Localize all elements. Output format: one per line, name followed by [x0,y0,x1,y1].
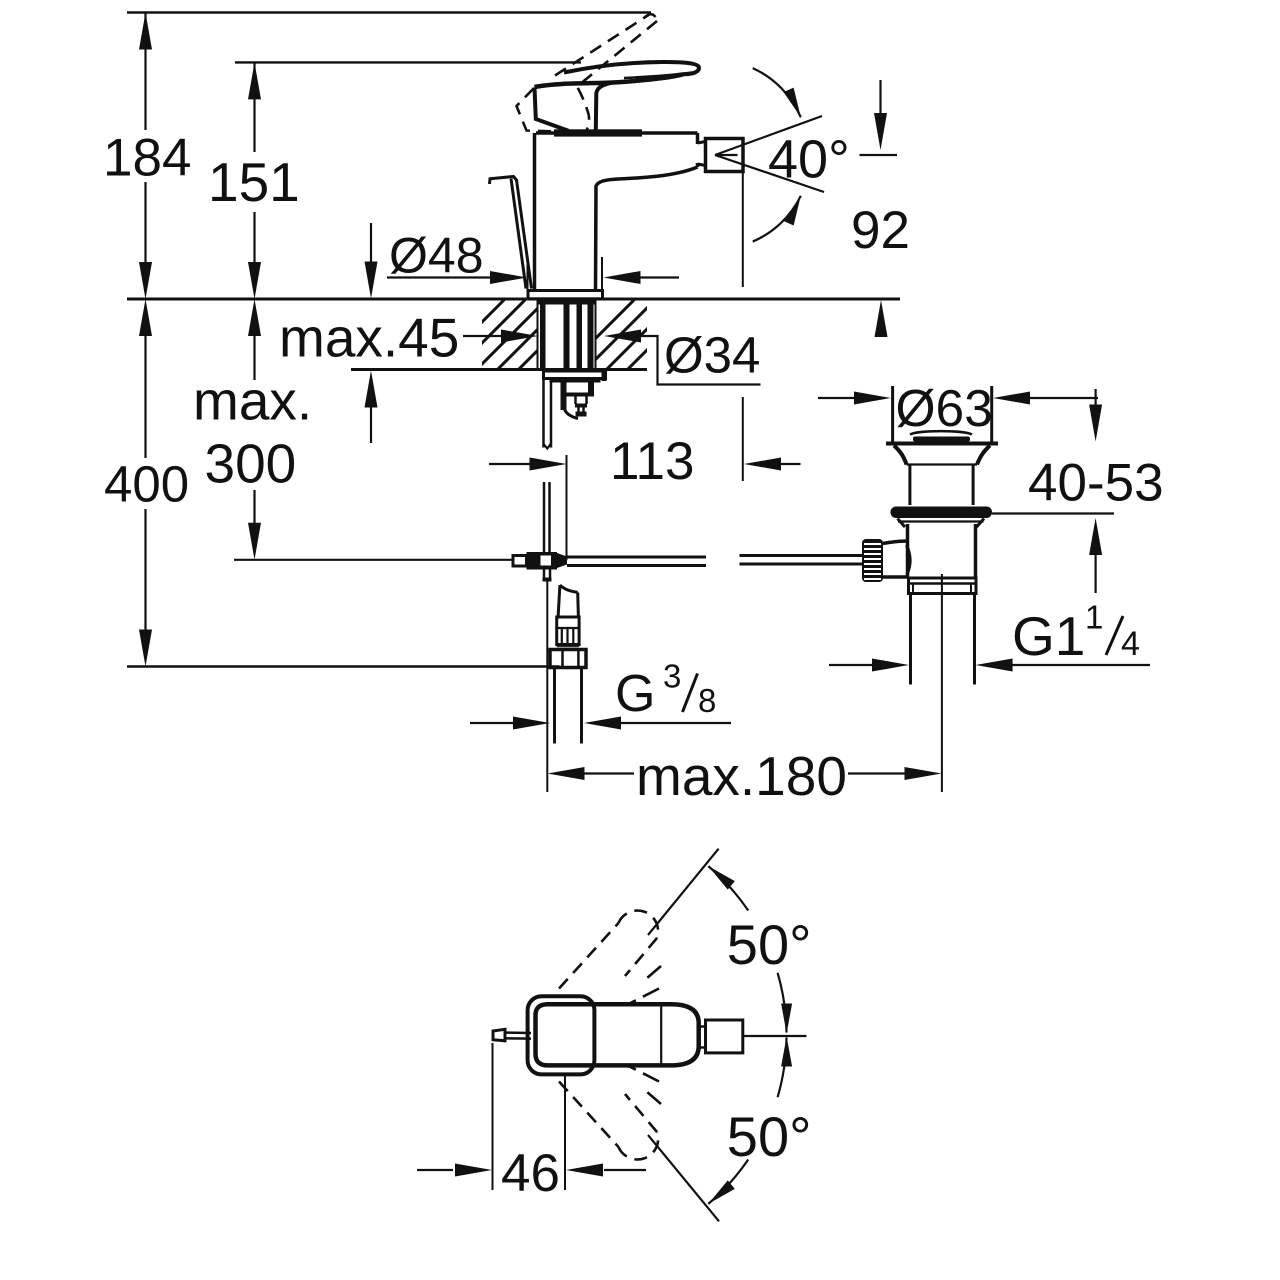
top view: body-spout joint line [660,1006,662,1065]
lever neck [596,83,613,130]
svg-text:113: 113 [610,432,695,491]
fixing washer plate [544,371,606,379]
svg-text:3: 3 [663,658,681,695]
top view: faucet base plate [528,996,595,1074]
dimension Ø48 line and arrows [387,276,491,278]
svg-text:46: 46 [501,1144,560,1203]
upper 50° arc with arrowheads [708,866,748,910]
reference line: lever tip height [235,61,581,63]
svg-text:50°: 50° [727,913,812,976]
push cap [910,431,972,434]
top view: spout centreline [743,1035,807,1037]
top view: faucet body and spout [536,1004,699,1065]
pop-up waste head cylinder (Ø63) [891,386,894,443]
svg-text:8: 8 [698,682,716,719]
svg-text:40-53: 40-53 [1028,454,1164,513]
113 extension line at faucet centre [566,455,568,560]
knurled adjusting knob [862,539,883,582]
head bottom rim [886,442,998,446]
faucet body outline [536,131,698,135]
faucet base plate [528,291,603,299]
tailpipe G1 1/4 [909,594,912,685]
dimension 400 vertical line [144,334,146,458]
top view: spout swivel -50° (dashed) [559,1082,618,1147]
tailpipe connector rings [909,578,977,594]
spout underside curve [596,167,698,291]
dimension G3/8 arrows [470,722,514,724]
lower 50° arc with arrowheads [778,1038,787,1098]
svg-text:Ø63: Ø63 [896,379,993,437]
svg-text:Ø34: Ø34 [664,327,760,384]
svg-text:40°: 40° [768,130,850,190]
fixing nut band [550,379,601,383]
dimension Ø63 line and arrows [818,397,855,399]
countertop bottom line [351,368,647,371]
svg-text:92: 92 [851,201,910,260]
pop-up rod lower segment [543,482,546,553]
rod clamp joint [513,556,527,567]
top view: aerator [706,1020,743,1053]
dimension G1 1/4 arrows [829,664,874,666]
40° spray cone rays from aerator [715,116,822,155]
spout neck to aerator [698,142,706,144]
svg-text:Ø48: Ø48 [389,228,484,284]
countertop top surface line [127,298,900,301]
extension line at spout tip [742,172,744,288]
dimension Ø34 leader with arrow [604,330,641,343]
svg-text:184: 184 [103,129,191,188]
dimension 151 vertical line [253,62,255,152]
dimension max.300 vertical line [253,334,255,380]
flexible hose upper tube [558,585,560,617]
countertop hatching right of faucet shank [560,299,761,374]
40° upper arc with arrowhead [753,68,801,117]
92 tick at aerator centreline [860,154,898,156]
svg-text:max.180: max.180 [636,745,847,807]
hose braid block [557,617,579,645]
temperature limiter lever on faucet left [490,177,532,289]
lever pivot block [535,88,569,131]
svg-text:400: 400 [104,456,189,513]
pop-up rod upper segment [542,379,545,448]
side port arm [883,541,908,544]
40° lower arc with arrowhead [753,196,801,242]
svg-text:G: G [615,665,655,723]
aerator / mousseur [706,139,744,172]
supply pipe tail [553,668,556,744]
hose nut G3/8 [550,650,586,668]
hose bend arc [564,406,579,419]
reference line: bottom of supply hose (400 mark) [127,665,560,668]
lever beak mouth line [624,73,692,79]
svg-text:max.: max. [193,370,312,432]
max.180 extension lines [546,582,548,793]
threaded shank and hose tails in hole [539,300,596,305]
upper cylinder body [908,465,911,506]
valve body cylinder [906,524,910,578]
hose collar [557,645,579,647]
dimension 184 vertical line [144,13,146,131]
40-53 reference line at O-ring [992,512,1114,514]
svg-text:4: 4 [1121,625,1140,663]
dimension 46 extension lines [492,1043,494,1190]
dimension 92 upper arrow [879,80,881,115]
head taper flare [894,446,907,465]
shank lower step right bar [588,383,594,397]
top view: spout swivel +50° (dashed) [559,923,618,988]
top view: temperature lever pin [493,1029,505,1041]
shank lower step left bar [561,383,567,411]
step band [565,393,594,397]
ball joint arc inside body [907,545,911,575]
hose connector step [574,397,577,405]
dimension max.45 leader line and arrow [463,335,502,337]
horizontal pop-up lever rod right segment [740,554,863,557]
dimension 113 line and arrows [489,463,541,465]
lever handle (solid position) [564,62,699,74]
max.45 vertical arrows at countertop [370,223,372,264]
countertop hatching left of faucet shank [430,299,673,374]
Ø48 extension lines [527,256,529,293]
50° swivel rays [648,849,719,935]
horizontal pop-up lever rod left segment [567,556,706,559]
mounting hole edges in countertop [537,299,539,370]
svg-text:G1: G1 [1012,605,1085,667]
40-53 upper arrow [1094,389,1096,417]
reference line: pop-up rod lever level [234,559,512,561]
O-ring seal (black band) [891,507,993,519]
flange below O-ring [898,519,906,528]
svg-text:50°: 50° [727,1105,812,1168]
lever handle raised 40° (dashed) [555,15,649,76]
svg-text:1: 1 [1085,599,1103,636]
svg-text:300: 300 [205,433,297,495]
40-53 lower arrow [1094,552,1096,593]
dimension 46 line and arrows [417,1169,453,1171]
dimension 92 lower arrow [875,300,888,337]
dimension max.180 line and arrows [584,772,634,774]
reference line: top of lever (max height) [127,11,651,13]
vertical rod below clamp [543,570,546,579]
svg-text:151: 151 [208,151,300,213]
svg-text:max.45: max.45 [279,307,459,369]
